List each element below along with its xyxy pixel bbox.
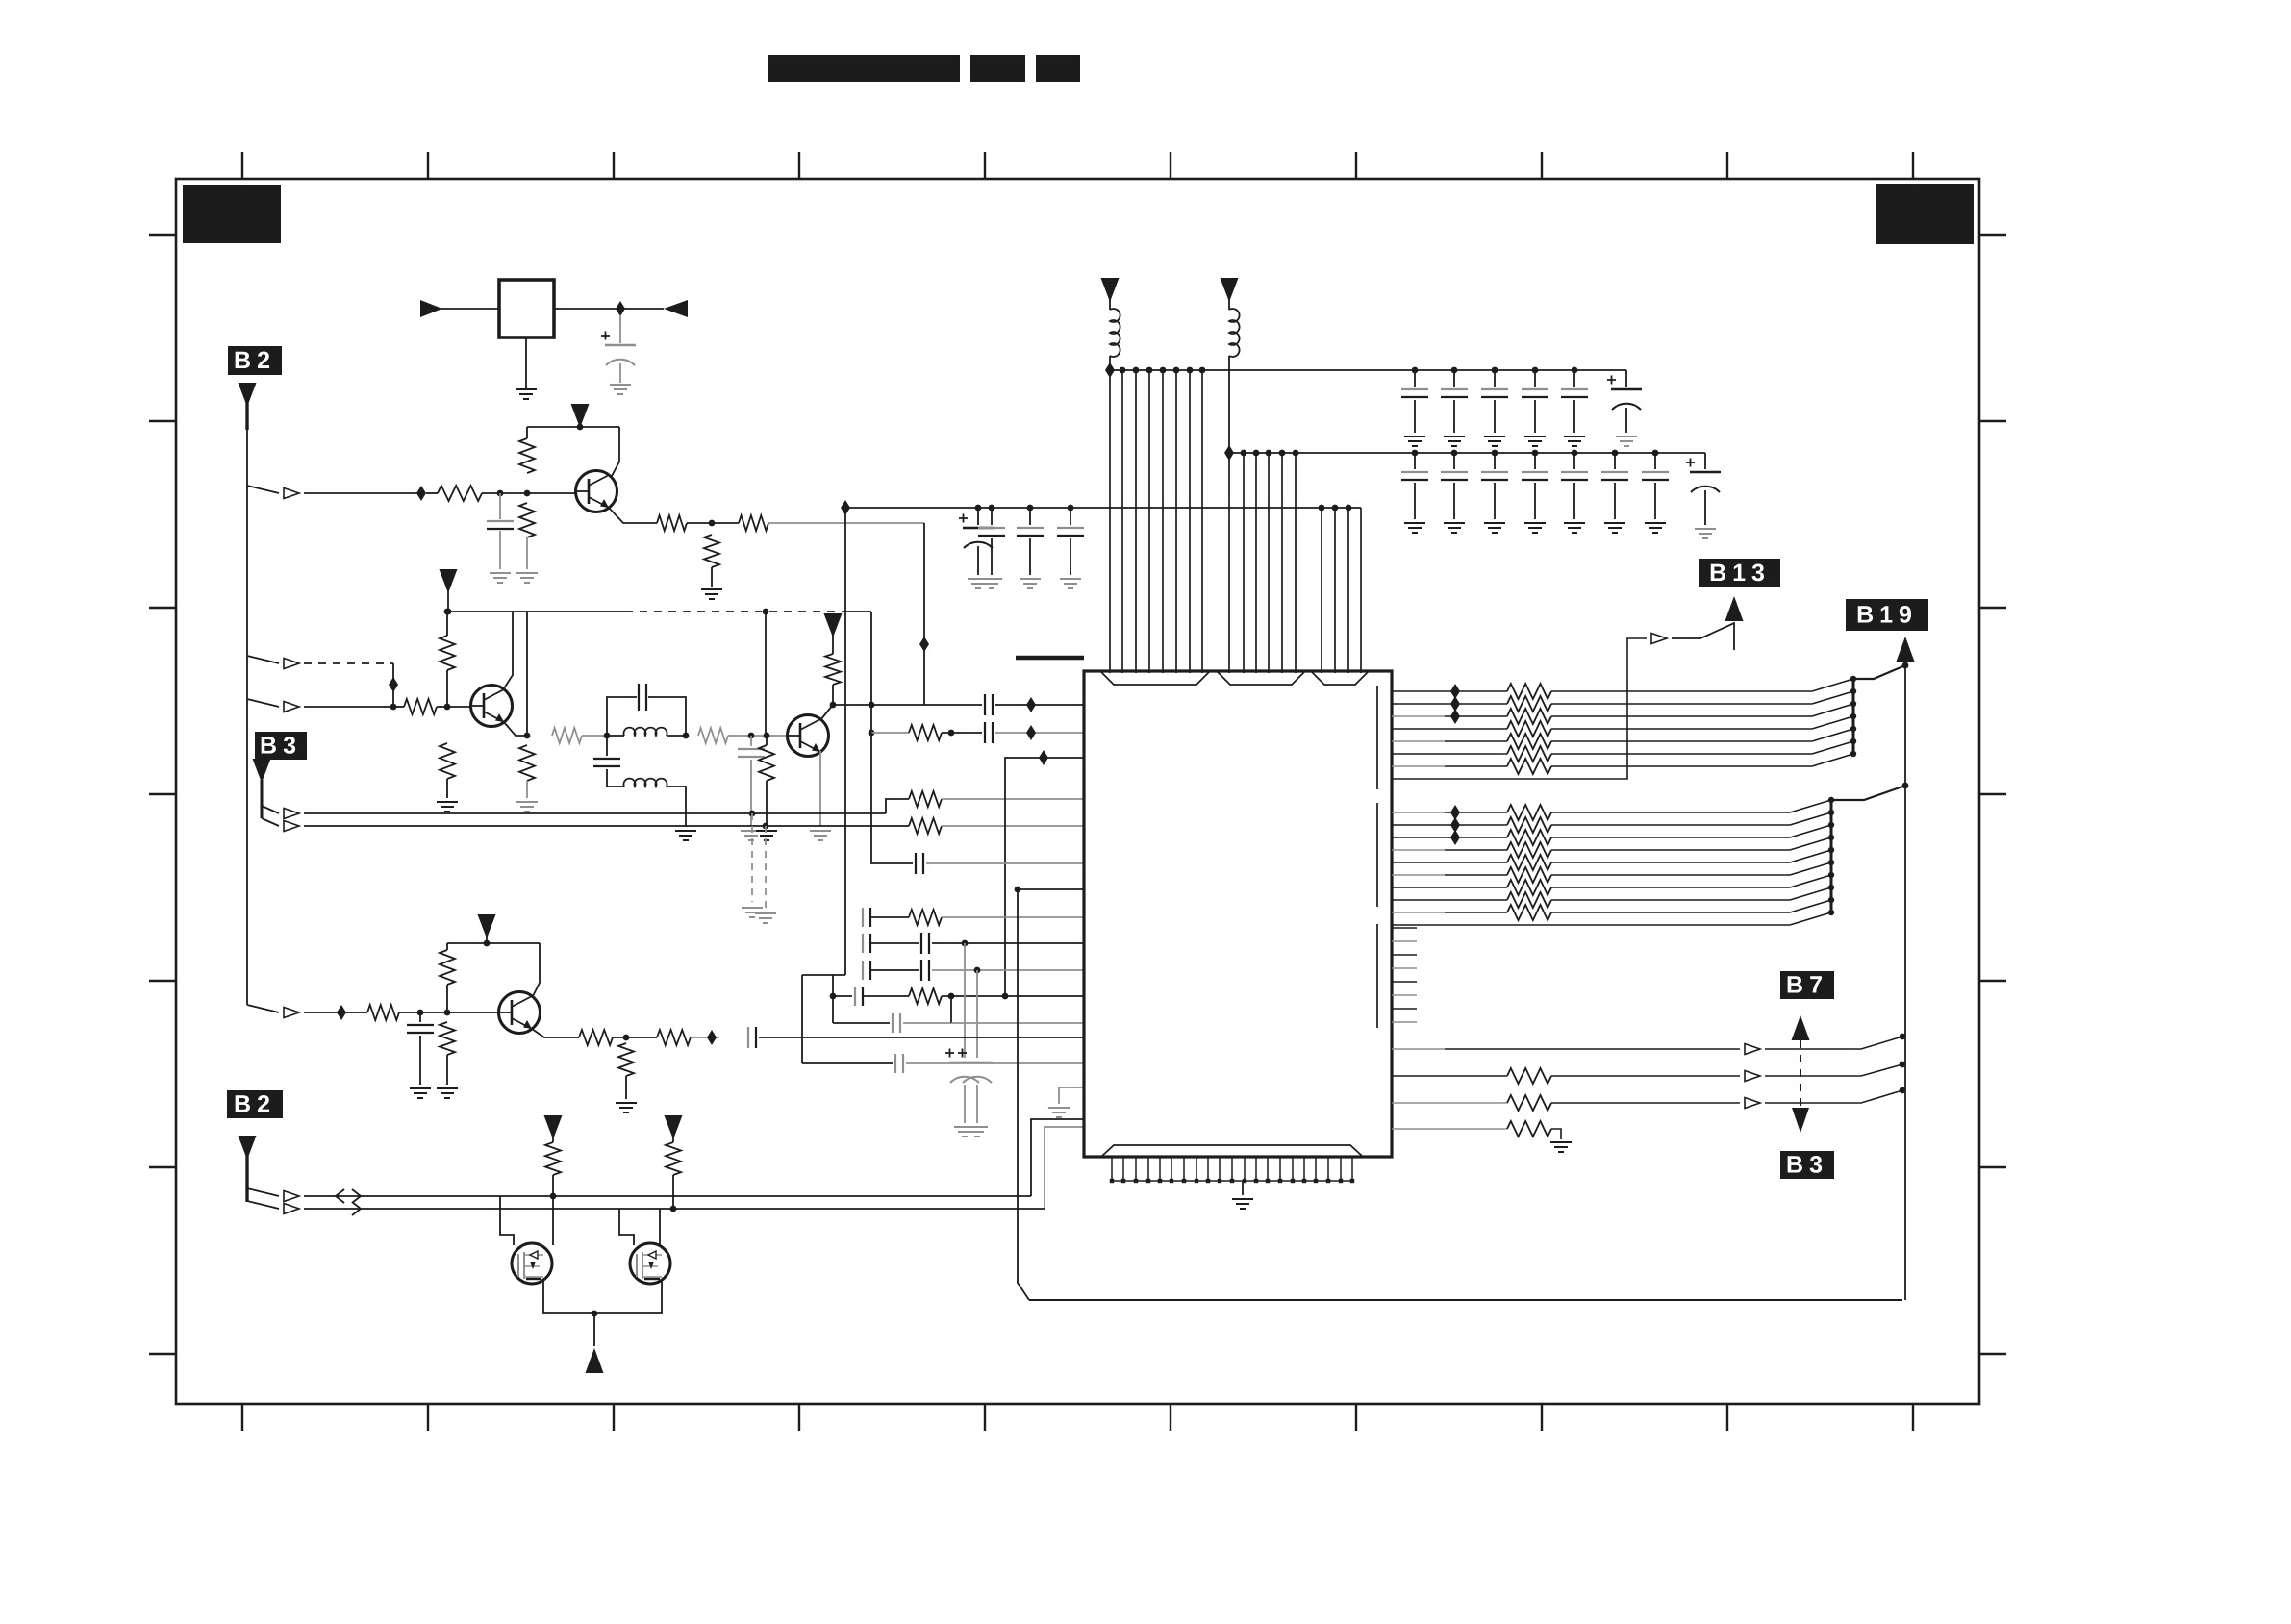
- power arrow B13 up: [1725, 596, 1744, 621]
- corner block top-right: [1876, 184, 1974, 244]
- wire branch B3-2: [262, 818, 279, 826]
- node row D start: [830, 993, 837, 1000]
- node Q4 base: [417, 1010, 451, 1016]
- power arrow source up: [586, 1348, 604, 1373]
- resistor R21: [367, 1005, 498, 1020]
- wire rail node to base net: [765, 612, 767, 736]
- signal out arrow left: [664, 300, 688, 317]
- capacitor C14 row E: [833, 996, 1084, 1033]
- input arrow M1: [284, 1191, 299, 1202]
- wire gate bus 2: [304, 1208, 1045, 1210]
- resistor R13 to ground: [756, 736, 777, 840]
- node Q2 base: [444, 704, 451, 711]
- resistor R20 rail: [440, 943, 455, 1012]
- wire bank2 bus to B19 line: [1831, 783, 1908, 800]
- power arrow rail 1: [1101, 278, 1120, 310]
- ic U1 internal bus bars: [1376, 686, 1378, 1028]
- transistor Q2: [471, 686, 513, 727]
- wire out row B7-2: [1392, 1075, 1507, 1077]
- resistor R22 to ground: [437, 1022, 458, 1098]
- svg-text:B2: B2: [234, 1091, 276, 1118]
- resistor R24: [657, 1030, 719, 1045]
- wire supply bus 2: [1229, 452, 1705, 454]
- wire Q3 collector: [820, 702, 836, 720]
- node B2 label top: [228, 346, 282, 375]
- node pin2 mid: [948, 730, 955, 737]
- wire branch B3-1: [262, 806, 279, 813]
- node rail mid: [763, 609, 769, 615]
- bus1 feed wires to IC group1: [1110, 370, 1202, 673]
- ground stub pin row 13: [1048, 1087, 1084, 1117]
- power arrow B2 top: [239, 383, 257, 407]
- capacitor C15 row F: [802, 1054, 1084, 1073]
- wire Q4 collector rail: [447, 940, 540, 996]
- inductor L1: [607, 728, 686, 736]
- node M2 drain: [670, 1206, 677, 1212]
- junction diamond rail2: [1224, 445, 1234, 461]
- wire B3 row 2: [304, 825, 909, 827]
- wire M2 gate step: [619, 1209, 634, 1245]
- wire rail to Q2 collector: [504, 612, 513, 688]
- junction diamond rail3: [841, 500, 850, 515]
- node B7 label: [1780, 971, 1834, 999]
- ic U1 bottom bracket: [1102, 1145, 1362, 1156]
- capacitor C8 input: [863, 908, 909, 927]
- decoupling capacitor bank row 2: [1401, 450, 1669, 533]
- bank2 input diamonds: [1450, 805, 1460, 845]
- resistor R12: [698, 728, 787, 743]
- title bar redacted block 2: [970, 55, 1025, 82]
- wire Q3 collector rail to pin1: [833, 702, 982, 709]
- electrolytic C17 to ground: [958, 970, 993, 1137]
- input arrow 4: [284, 1008, 299, 1018]
- node row D tap: [948, 993, 1009, 1000]
- decoupling capacitor bank row 1: [1401, 367, 1588, 446]
- wire Q2 collector rail: [448, 611, 871, 612]
- power arrow Q2 rail: [440, 569, 458, 612]
- wire branch M1: [247, 1188, 279, 1196]
- wire pin row 3: [1005, 758, 1084, 996]
- ic right bank1 wires with resistors: [1392, 679, 1853, 774]
- capacitor C11 input: [863, 961, 919, 980]
- capacitor C7: [916, 853, 1084, 874]
- svg-text:B3: B3: [260, 733, 302, 760]
- resistor R11: [552, 728, 607, 743]
- junction diamond Q4 input: [337, 1005, 367, 1020]
- input arrow B3-2: [284, 821, 299, 832]
- capacitor C13 input: [833, 987, 909, 1006]
- wire to IC pin row 1: [923, 523, 925, 705]
- wire M1 drain drop: [552, 1196, 554, 1245]
- wire pin row 1 net: [985, 694, 1084, 715]
- chevron marks bus 1: [336, 1189, 361, 1203]
- resistor R29: [1507, 1095, 1740, 1111]
- node Q2 emitter: [524, 733, 531, 739]
- ic right bank2 wires with resistors: [1392, 800, 1831, 925]
- resistor R27: [666, 1142, 681, 1209]
- signal arrow B13: [1651, 634, 1667, 644]
- capacitor C5 to ground: [738, 736, 765, 840]
- delay line X1: [499, 280, 554, 337]
- title bar redacted block 1: [768, 55, 960, 82]
- dashed stub to ground B: [755, 826, 776, 923]
- mosfet M2: [630, 1243, 670, 1284]
- resistor R1: [426, 486, 527, 501]
- signal arrow out 3: [1745, 1087, 1905, 1109]
- input arrow M2: [284, 1204, 299, 1214]
- resistor R3 to rail: [519, 427, 535, 473]
- capacitor C25 bus3: [1057, 508, 1084, 588]
- bank1 input diamonds: [1450, 684, 1460, 724]
- wire Q4 emitter: [532, 1029, 579, 1037]
- input arrow 3: [284, 702, 299, 712]
- node Q2 input: [390, 704, 397, 711]
- wire B2 gate row1 riser: [1031, 1119, 1084, 1196]
- wire pin row8 to B13: [1392, 638, 1647, 779]
- capacitor C3 bridge: [607, 684, 686, 736]
- resistor R6 to ground: [701, 535, 722, 599]
- ic bottom pins to ground bus: [1110, 1157, 1354, 1183]
- junction diamond net V1: [919, 637, 929, 652]
- mosfet M1: [512, 1243, 552, 1284]
- junction diamond out: [707, 1030, 717, 1045]
- capacitor C9 input: [863, 934, 919, 953]
- wire gate bus 1: [304, 1195, 1031, 1197]
- power arrow M1 drain: [544, 1115, 563, 1142]
- resistor R9 base to ground: [437, 743, 458, 812]
- svg-text:B13: B13: [1709, 560, 1771, 587]
- wire B2 vertical bus: [245, 402, 248, 1005]
- electrolytic C21 bank2: [1686, 453, 1721, 538]
- wire source bus: [543, 1281, 662, 1313]
- capacitor C23 bus3: [978, 508, 1005, 588]
- border frame: [176, 179, 1979, 1404]
- power arrow rail 2: [1221, 278, 1239, 310]
- ic U1 top connector brackets: [1101, 672, 1368, 685]
- wire rail stub: [526, 612, 528, 736]
- wire rail drop to pin row 2: [870, 612, 872, 733]
- capacitor C10: [921, 933, 1084, 954]
- resistor R5: [712, 515, 924, 531]
- node emitter chain 2: [623, 1035, 630, 1041]
- wire Q1 collector rail: [527, 427, 619, 478]
- electrolytic C20 bank1: [1607, 370, 1642, 446]
- capacitor C2 to ground: [487, 493, 514, 583]
- node emitter chain: [709, 520, 716, 527]
- ic right short stubs bank3: [1392, 928, 1417, 1022]
- wire Q1 emitter: [609, 508, 657, 523]
- wire branch 4: [247, 1005, 279, 1012]
- ground below X1: [516, 337, 537, 399]
- resistor R30: [1507, 1121, 1561, 1139]
- power arrow Q3 rail: [824, 613, 843, 705]
- node Q2 rail: [445, 609, 452, 615]
- inductor L4: [1229, 309, 1240, 453]
- wire B2 gate row2 riser: [1045, 1127, 1084, 1209]
- wire branch M2: [247, 1201, 279, 1209]
- resistor R4: [657, 515, 712, 531]
- node B3 label: [255, 732, 307, 760]
- wire out row 4: [1392, 1128, 1507, 1130]
- signal arrow out 2: [1745, 1062, 1905, 1082]
- resistor R26: [545, 1142, 561, 1196]
- node B2 label bottom: [227, 1090, 283, 1118]
- wire Q2 emitter: [504, 722, 527, 736]
- electrolytic C22 bus3: [959, 508, 994, 588]
- ic U1 outline: [1084, 671, 1392, 1157]
- inductor L2: [607, 779, 696, 840]
- wire M2 drain drop: [659, 1209, 661, 1246]
- node row2 tap: [763, 823, 769, 830]
- capacitor C19 coupling: [748, 1027, 1084, 1048]
- wire Q1 base input: [304, 492, 421, 494]
- wire branch 2 dashed: [247, 656, 279, 663]
- ground row 4: [1550, 1142, 1572, 1152]
- signal in arrow to delay line X1: [420, 300, 499, 317]
- resistor R14: [909, 791, 1084, 807]
- capacitor C12: [921, 960, 1084, 981]
- junction diamond rail1: [1105, 362, 1115, 378]
- input arrow B3-1: [284, 809, 299, 819]
- node row1 tap: [749, 811, 756, 817]
- transistor Q1: [576, 471, 617, 512]
- resistor R15: [909, 818, 1084, 834]
- node LC in: [604, 733, 611, 739]
- wire pin row 6 drop: [871, 733, 913, 863]
- transistor Q4: [499, 992, 541, 1034]
- svg-text:B7: B7: [1786, 972, 1828, 999]
- frame tick marks: [149, 152, 2006, 1431]
- resistor R23: [579, 1030, 657, 1045]
- wire bank1 bus to B19 node: [1853, 662, 1908, 679]
- power arrow B3: [253, 759, 271, 818]
- power arrow M2 drain: [665, 1115, 683, 1142]
- electrolytic C16 to ground: [945, 943, 980, 1137]
- bus1 tap dots: [1120, 367, 1206, 374]
- junction diamond input 2: [389, 677, 398, 692]
- wire net V2 riser to bottom: [1018, 889, 1029, 1300]
- signal arrow out 1: [1745, 1034, 1905, 1055]
- bank2 collector bus: [1828, 797, 1834, 915]
- resistor R7: [393, 699, 470, 714]
- node B19 label: [1846, 599, 1928, 631]
- resistor R16: [871, 725, 982, 740]
- junction diamond pin2: [1026, 725, 1036, 740]
- node elec tap 1: [962, 940, 969, 947]
- resistor R28: [1507, 1068, 1740, 1084]
- arrow pair B7/B3: [1792, 1015, 1810, 1133]
- capacitor C4: [593, 736, 620, 787]
- svg-text:B19: B19: [1856, 602, 1918, 629]
- transistor Q3: [788, 715, 829, 757]
- wire branch 1 to Q1: [247, 486, 279, 493]
- svg-text:B2: B2: [234, 347, 276, 374]
- input arrow 2: [284, 659, 299, 669]
- wire branch 3: [247, 699, 279, 707]
- junction diamond pin1: [1026, 697, 1036, 712]
- node source mid: [592, 1311, 598, 1346]
- bus3 tap dots: [975, 505, 1352, 512]
- inductor L3: [1110, 309, 1120, 370]
- bold marker above IC: [1016, 656, 1084, 661]
- capacitor C24 bus3: [1017, 508, 1044, 588]
- wire supply bus 1: [1110, 369, 1626, 371]
- wire bottom return: [1029, 1299, 1902, 1301]
- wire power drop jog: [802, 508, 845, 1063]
- power arrow B19 up: [1897, 637, 1915, 665]
- resistor R25 to ground: [616, 1043, 637, 1112]
- ground IC bottom: [1232, 1181, 1253, 1209]
- power arrow Q1 rail: [571, 404, 590, 430]
- node pin row 2 start: [869, 730, 875, 737]
- junction node X1 out: [616, 301, 625, 316]
- svg-text:B3: B3: [1786, 1152, 1828, 1179]
- resistor R17: [909, 910, 1084, 925]
- resistor R2 to ground: [516, 503, 538, 583]
- capacitor C6: [985, 722, 1084, 743]
- wire out row B7-3: [1392, 1102, 1507, 1104]
- wire out row B7-1: [1392, 1048, 1740, 1050]
- title bar redacted block 3: [1036, 55, 1080, 82]
- bus2 feed wires to IC group2: [1229, 453, 1296, 673]
- node LC out: [683, 733, 690, 739]
- resistor R8 rail to base: [440, 609, 455, 707]
- corner block top-left: [183, 185, 281, 243]
- wire X1 output: [554, 308, 664, 310]
- input arrow 1: [284, 488, 299, 499]
- resistor R18: [909, 988, 1084, 1004]
- node pin row 925: [1015, 887, 1084, 893]
- bank1 collector bus: [1850, 676, 1856, 757]
- dashed stub to ground A: [742, 813, 763, 917]
- wire B3 row 1: [304, 799, 909, 813]
- node Q1 base: [497, 490, 575, 497]
- chevron mark bus 2: [352, 1202, 361, 1215]
- wire M1 gate step: [500, 1196, 514, 1245]
- bus3 feed wires to IC group3: [1322, 508, 1361, 673]
- resistor R10 emitter to ground: [516, 745, 538, 812]
- node B13 label: [1699, 559, 1780, 587]
- node Q3 base net: [748, 733, 770, 739]
- wire B19 vertical net: [1904, 665, 1906, 1300]
- node elec tap 2: [974, 967, 981, 974]
- node M1 drain: [550, 1193, 557, 1200]
- power arrow Q4 rail: [478, 914, 496, 943]
- wire B13 riser: [1672, 623, 1734, 650]
- junction diamond pin3: [1039, 750, 1048, 765]
- wire Q3 emitter to ground: [810, 751, 831, 840]
- power arrow B2 bottom: [239, 1136, 257, 1202]
- electrolytic capacitor C1: [601, 316, 636, 394]
- capacitor C18 to ground: [407, 1012, 434, 1098]
- bus2 tap dots: [1241, 450, 1299, 457]
- wire supply bus 3: [845, 507, 1361, 509]
- junction diamond Q1 input: [416, 486, 426, 501]
- node B3 label bottom: [1780, 1151, 1834, 1179]
